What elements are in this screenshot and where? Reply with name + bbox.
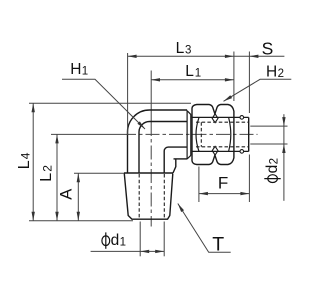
elbow neck bottom line with fillet to vertical neck edge <box>164 147 187 173</box>
centerline vertical axis (dash-dot through body and thread) <box>150 122 152 227</box>
extension line nut right face (L3 L1 S) <box>233 52 235 102</box>
nut chamfer band line top (and sleeve top edge) <box>192 116 249 118</box>
arrowhead phi d2 top outside <box>282 117 285 126</box>
leader line T <box>178 204 231 253</box>
extension line body left edge (L3) <box>127 53 129 135</box>
leader arrowhead T <box>178 204 184 213</box>
svg-text:L2: L2 <box>38 165 55 182</box>
label phi d1 <box>102 232 126 249</box>
dimension line phi d2 <box>283 114 285 201</box>
washer right edge <box>190 114 192 155</box>
thread shoulder line <box>124 172 173 174</box>
thread root hidden line left <box>138 174 140 219</box>
nut hidden thread line bottom <box>196 146 248 148</box>
thread root hidden line right <box>163 174 165 219</box>
arrowhead L1 right <box>225 78 234 81</box>
label L4 rotated <box>16 152 33 169</box>
nut chamfer band line bottom (and sleeve bottom edge) <box>192 150 249 152</box>
extension line thread dia right (phi d1) <box>163 222 165 257</box>
svg-text:A: A <box>58 189 76 200</box>
arrowhead phi d2 bottom outside <box>282 144 285 153</box>
dimension line S <box>234 55 285 57</box>
dimension line L2 <box>56 134 58 220</box>
nut hex corner diamond top <box>212 114 218 123</box>
extension line bore bottom (phi d2) <box>250 143 287 145</box>
centerline horizontal axis (dash-dot through body, nut and sleeve) <box>122 133 258 135</box>
arrowhead L2 top <box>55 134 58 143</box>
arrowhead L3 left <box>128 55 137 58</box>
label A rotated <box>58 189 76 200</box>
arrowhead L2 bottom <box>55 212 58 221</box>
leader arrowhead H1 <box>137 121 145 129</box>
elbow body outer contour with corner arc <box>128 110 188 173</box>
extension line sleeve end (S F) <box>248 52 250 114</box>
extension line thread end bottom (L4 L2 A) <box>29 220 133 222</box>
arrowhead S right outside <box>249 55 258 58</box>
body flange bottom edge <box>174 158 188 160</box>
washer left edge <box>186 111 188 160</box>
arrowhead F right <box>240 192 249 195</box>
dimension line phi d1 <box>91 250 165 252</box>
svg-text:F: F <box>218 174 228 193</box>
nut facet arc left <box>196 117 199 151</box>
arrowhead phi d1 right <box>155 250 164 253</box>
extension line bore top (phi d2) <box>250 125 287 127</box>
extension line nut left (F) <box>198 167 200 203</box>
leader line H2 <box>224 79 292 101</box>
nut outline with hex lobes and notches <box>192 105 234 165</box>
dimension line L4 <box>32 103 34 220</box>
elbow body inner contour (neck silhouette) with inner arc <box>139 122 187 174</box>
sleeve weld dot bottom <box>240 150 244 154</box>
leader line H1 <box>62 79 145 129</box>
svg-text:S: S <box>262 38 274 58</box>
nut hidden thread depth line <box>200 122 202 147</box>
washer top bevel <box>187 111 191 115</box>
leader arrowhead H2 <box>224 95 233 101</box>
dimension line A <box>77 173 79 220</box>
arrowhead L4 bottom <box>32 212 35 221</box>
nut facet arc right <box>229 117 231 151</box>
body hex right edge with chamfer <box>173 159 176 173</box>
arrowhead L3 right <box>225 55 234 58</box>
arrowhead A top <box>77 173 80 182</box>
extension line thread dia left (phi d1) <box>139 222 141 257</box>
label L2 rotated <box>38 165 55 182</box>
dimension line L1 <box>151 79 234 81</box>
sleeve weld dot top <box>240 116 244 120</box>
arrowhead L1 left <box>151 78 160 81</box>
nut hex corner diamond bottom <box>212 146 218 155</box>
washer bottom bevel <box>187 155 191 159</box>
extension line overall top (L4) <box>29 102 191 104</box>
extension line sleeve end lower (F) <box>248 155 250 203</box>
tapered male thread outline <box>124 174 173 220</box>
label phi d2 rotated <box>264 158 281 183</box>
svg-text:T: T <box>212 233 224 255</box>
centerline vertical axis (solid extension above body) <box>150 71 152 123</box>
arrowhead phi d1 left <box>140 250 149 253</box>
centerline horizontal axis (solid extension left of body) <box>51 133 122 135</box>
arrowhead A bottom <box>77 212 80 221</box>
svg-text:L4: L4 <box>16 152 33 169</box>
arrowhead L4 top <box>32 103 35 112</box>
sleeve end face <box>248 117 250 151</box>
dimension line F <box>199 193 250 195</box>
nut hidden thread line top <box>196 121 248 123</box>
arrowhead F left <box>199 192 208 195</box>
dimension line L3 <box>128 55 234 57</box>
extension line thread shoulder (A) <box>74 172 124 174</box>
